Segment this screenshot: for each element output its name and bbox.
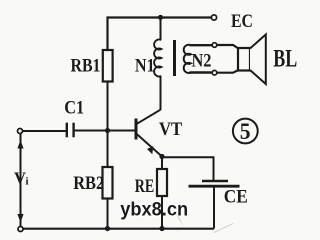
label figure number 5 — [233, 119, 258, 144]
transformer core — [173, 40, 176, 76]
wire top supply rail — [107, 16, 213, 18]
svg-text:EC: EC — [231, 11, 253, 32]
wire RB2 top — [107, 131, 109, 167]
label C1 — [64, 97, 84, 118]
terminal N2 bottom — [212, 70, 217, 75]
resistor RB2 — [103, 167, 113, 199]
node junction top rail / N1 — [158, 15, 163, 20]
svg-text:RE: RE — [135, 176, 155, 197]
svg-text:ybx8.cn: ybx8.cn — [120, 200, 188, 221]
wire RB2 bottom — [107, 199, 109, 229]
node base junction — [105, 128, 110, 133]
arrow Vi upper — [17, 140, 23, 149]
node RE / ground rail — [159, 226, 164, 231]
label CE — [224, 187, 248, 208]
svg-text:5: 5 — [240, 119, 251, 144]
capacitor C1 — [67, 123, 74, 138]
speaker BL — [238, 35, 266, 85]
svg-text:RB2: RB2 — [73, 173, 104, 194]
svg-text:N2: N2 — [192, 51, 212, 72]
node RB2 / ground rail — [105, 226, 110, 231]
inductor N2 (transformer secondary) — [184, 45, 212, 73]
svg-text:VT: VT — [159, 119, 182, 140]
svg-text:i: i — [26, 176, 29, 188]
wire input to C1 — [22, 130, 66, 132]
terminal EC — [211, 15, 216, 20]
resistor RB1 — [103, 50, 113, 82]
label N1 — [135, 55, 155, 76]
wire bottom ground rail — [23, 228, 214, 230]
wire Vi vertical — [20, 134, 22, 226]
node emitter junction — [159, 154, 164, 159]
label Vi — [14, 169, 29, 188]
terminal N2 top — [212, 43, 217, 48]
svg-text:V: V — [14, 169, 26, 188]
label N2 — [192, 51, 212, 72]
svg-text:BL: BL — [273, 46, 297, 73]
terminal input top — [18, 129, 23, 134]
label VT — [159, 119, 182, 140]
inductor N1 (transformer primary) — [154, 18, 161, 111]
wire emitter to CE — [162, 157, 214, 181]
terminal input bottom — [18, 227, 23, 232]
watermark ybx8.cn — [120, 200, 188, 221]
transistor VT — [136, 110, 162, 157]
wire RE bottom — [161, 196, 163, 229]
arrow Vi lower — [17, 214, 23, 223]
label RE — [135, 176, 155, 197]
wire CE bottom — [213, 186, 215, 228]
label RB1 — [71, 55, 101, 76]
wire N2 to speaker bottom — [217, 70, 239, 73]
wire C1 to base — [75, 130, 135, 132]
resistor RE — [157, 169, 167, 196]
label EC — [231, 11, 253, 32]
wire N2 to speaker top — [217, 45, 239, 49]
wire RB1 bottom — [107, 82, 109, 132]
capacitor CE — [189, 181, 240, 186]
wire emitter to RE — [161, 157, 163, 170]
svg-text:N1: N1 — [135, 55, 155, 76]
svg-text:RB1: RB1 — [71, 55, 101, 76]
svg-text:C1: C1 — [64, 97, 84, 118]
label RB2 — [73, 173, 104, 194]
wire RB1 top — [106, 17, 108, 51]
label BL — [273, 46, 297, 73]
svg-text:CE: CE — [224, 187, 248, 208]
